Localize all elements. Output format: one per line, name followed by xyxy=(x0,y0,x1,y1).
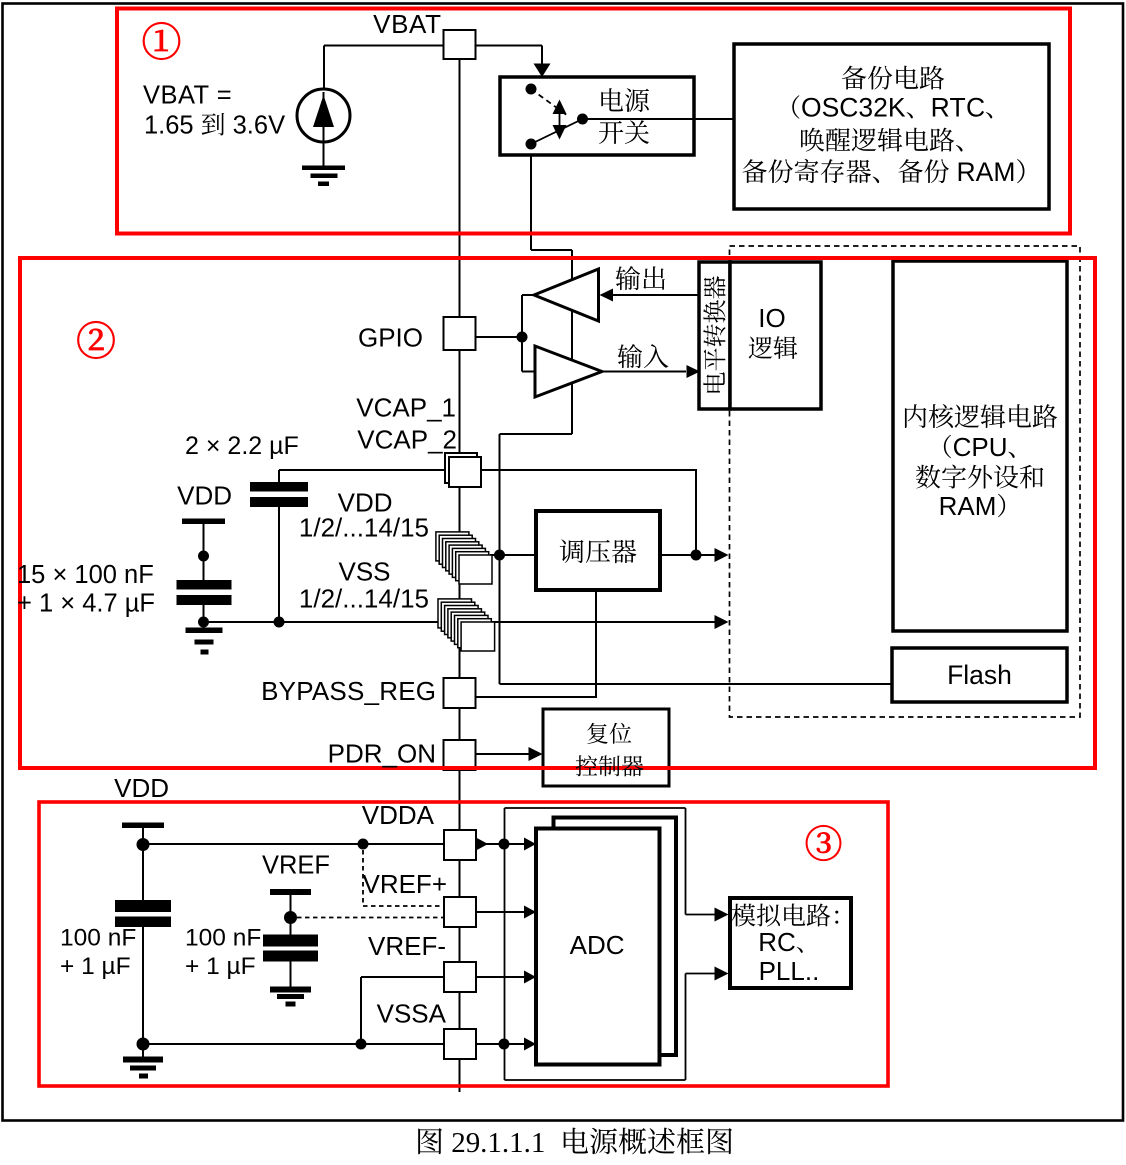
svg-text:PDR_ON: PDR_ON xyxy=(328,739,436,769)
svg-text:VSSA: VSSA xyxy=(377,999,447,1029)
svg-text:Flash: Flash xyxy=(947,660,1012,690)
svg-text:VSS: VSS xyxy=(339,557,391,587)
svg-text:VCAP_2: VCAP_2 xyxy=(357,425,457,455)
svg-text:RAM: RAM xyxy=(939,491,997,521)
svg-text:100 nF: 100 nF xyxy=(185,925,261,952)
svg-text:2 × 2.2 µF: 2 × 2.2 µF xyxy=(185,432,299,460)
svg-text:+ 1 µF: + 1 µF xyxy=(60,953,131,980)
svg-text:VREF+: VREF+ xyxy=(363,869,448,899)
svg-text:RTC: RTC xyxy=(931,93,986,123)
svg-text:100 nF: 100 nF xyxy=(60,925,136,952)
svg-text:GPIO: GPIO xyxy=(358,323,423,353)
svg-text:1/2/...14/15: 1/2/...14/15 xyxy=(299,513,429,543)
svg-text:PLL..: PLL.. xyxy=(759,956,820,986)
svg-text:VREF-: VREF- xyxy=(368,931,446,961)
svg-text:CPU: CPU xyxy=(953,432,1008,462)
svg-text:VDD: VDD xyxy=(114,773,169,803)
svg-text:ADC: ADC xyxy=(570,930,625,960)
svg-text:3.6V: 3.6V xyxy=(233,112,286,140)
svg-text:29.1.1.1: 29.1.1.1 xyxy=(451,1127,545,1159)
svg-text:1/2/...14/15: 1/2/...14/15 xyxy=(299,584,429,614)
svg-text:RAM: RAM xyxy=(957,157,1016,187)
svg-text:+ 1 × 4.7 µF: + 1 × 4.7 µF xyxy=(17,590,155,618)
svg-text:VREF: VREF xyxy=(262,852,330,880)
svg-text:VBAT: VBAT xyxy=(373,9,441,39)
svg-text:1.65: 1.65 xyxy=(144,112,194,140)
svg-text:VDD: VDD xyxy=(177,481,232,511)
svg-text:OSC32K: OSC32K xyxy=(801,93,906,123)
svg-text:15 × 100 nF: 15 × 100 nF xyxy=(17,561,154,589)
svg-text:VDDA: VDDA xyxy=(362,800,435,830)
svg-text:IO: IO xyxy=(758,303,785,333)
svg-text:VBAT =: VBAT = xyxy=(143,82,232,110)
svg-text:VCAP_1: VCAP_1 xyxy=(356,393,456,423)
svg-text:RC: RC xyxy=(758,927,796,957)
svg-text:BYPASS_REG: BYPASS_REG xyxy=(261,676,436,706)
svg-text:+ 1 µF: + 1 µF xyxy=(185,953,256,980)
